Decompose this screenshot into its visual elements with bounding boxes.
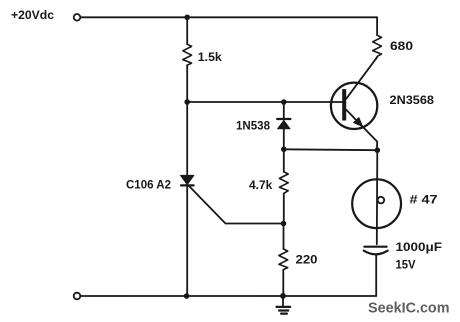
wire base rail [187,101,342,103]
terminal top-left [74,14,81,21]
diode D1 1N538 [277,102,290,149]
svg-text:SeekIC.com: SeekIC.com [368,300,450,317]
resistor R3 4.7k [279,172,288,194]
svg-text:1000μF: 1000μF [396,240,443,254]
wire 680 top lead [376,17,378,35]
wire 1.5k top lead [186,17,188,44]
node bottom junction [184,293,190,299]
resistor R4 220 [279,249,288,270]
svg-text:+20Vdc: +20Vdc [11,8,54,22]
lamp DS1 #47 [352,150,401,244]
wire 220 top lead [283,224,285,249]
node junction top of 1.5k [184,14,190,20]
svg-text:2N3568: 2N3568 [390,93,435,107]
wire 4.7k bottom lead [283,193,285,223]
node base-rail junction [184,99,190,105]
wire 220 bottom lead [282,270,284,296]
svg-text:680: 680 [390,39,413,53]
svg-text:15V: 15V [396,257,416,271]
wire bottom rail [81,295,377,297]
wire 4.7k top lead [283,149,285,172]
svg-text:1.5k: 1.5k [198,50,222,64]
capacitor C1 1000uF [364,247,388,296]
resistor R2 680 [373,35,382,56]
node gate junction [281,221,287,227]
wire emitter rail [284,148,378,151]
node diode top junction [281,99,287,105]
node emitter-rail right junction [375,147,381,153]
resistor R1 1.5k [183,44,192,65]
terminal bottom-left [74,293,81,300]
node ground junction [280,293,286,299]
thyristor SCR1 C106A2 [181,102,194,296]
svg-text:4.7k: 4.7k [249,178,273,192]
node emitter-rail left junction [281,147,287,153]
ground [277,296,291,314]
svg-text:220: 220 [296,253,318,267]
wire 1.5k bottom lead [186,65,188,102]
wire top rail [81,16,378,18]
wire gate [188,185,283,223]
svg-text:C106 A2: C106 A2 [126,177,171,191]
svg-text:1N538: 1N538 [236,119,270,133]
svg-text:# 47: # 47 [410,192,438,206]
transistor Q1 2N3568 [331,57,377,150]
